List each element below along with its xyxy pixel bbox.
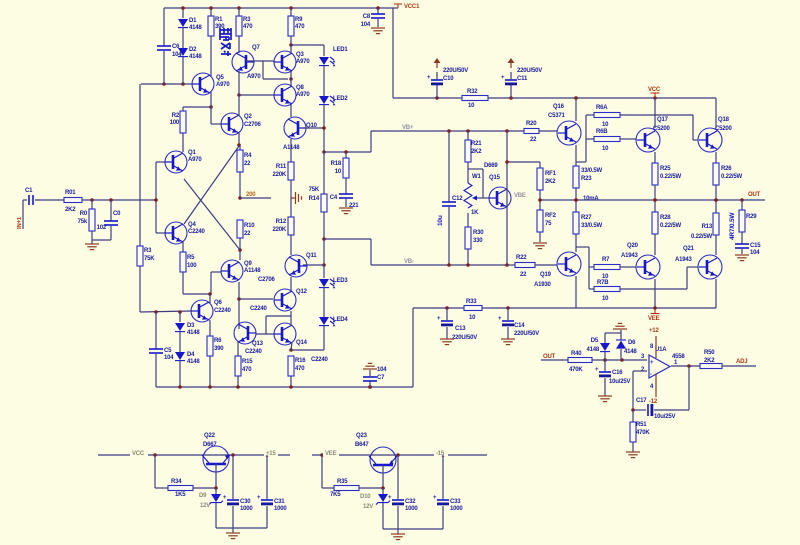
- svg-text:R6B: R6B: [596, 129, 608, 135]
- wire to VAS bottom: [324, 238, 371, 240]
- svg-text:R7B: R7B: [597, 280, 609, 286]
- svg-text:0.22/5W: 0.22/5W: [660, 223, 681, 229]
- svg-text:0.22/5W: 0.22/5W: [721, 174, 742, 180]
- svg-text:4148: 4148: [586, 347, 599, 353]
- svg-text:R30: R30: [473, 230, 484, 236]
- svg-text:10: 10: [602, 296, 609, 302]
- svg-text:10: 10: [602, 122, 609, 128]
- svg-text:R11: R11: [276, 164, 287, 170]
- svg-text:C2240: C2240: [188, 229, 206, 235]
- svg-text:OUT: OUT: [543, 354, 556, 360]
- svg-text:Q12: Q12: [296, 289, 308, 295]
- svg-text:12V: 12V: [200, 503, 210, 509]
- svg-text:Q23: Q23: [356, 433, 368, 439]
- svg-text:R40: R40: [571, 351, 582, 357]
- svg-text:C15: C15: [750, 243, 761, 249]
- svg-text:D5: D5: [591, 338, 599, 344]
- svg-text:D2: D2: [189, 47, 197, 53]
- svg-text:C12: C12: [452, 196, 463, 202]
- svg-text:VCC: VCC: [648, 87, 661, 93]
- svg-text:4: 4: [650, 384, 654, 390]
- svg-text:R13: R13: [702, 224, 713, 230]
- svg-text:D6: D6: [628, 340, 636, 346]
- resistor R50: [700, 350, 756, 369]
- resistor R7: [594, 257, 636, 280]
- svg-text:C2240: C2240: [311, 357, 329, 363]
- wire to VAS top: [324, 151, 371, 153]
- wire LED mid: [322, 239, 326, 267]
- svg-text:4R7/0.5W: 4R7/0.5W: [729, 212, 736, 240]
- transistor Q10: [283, 117, 318, 151]
- capacitor C5: [149, 312, 174, 387]
- wire rail98 left: [393, 96, 462, 100]
- ground sub2: [391, 529, 405, 540]
- svg-text:22: 22: [520, 272, 527, 278]
- svg-text:+: +: [427, 75, 431, 81]
- svg-text:R16: R16: [295, 358, 306, 364]
- svg-text:Q1: Q1: [188, 150, 196, 156]
- wire RF tap: [505, 160, 540, 168]
- svg-text:A970: A970: [247, 74, 261, 80]
- svg-text:Q4: Q4: [188, 222, 196, 228]
- wire R6AB tie: [576, 115, 594, 162]
- wire VAS bottom-left: [371, 239, 507, 265]
- resistor R3 75K: [137, 246, 155, 312]
- resistor R10: [237, 220, 255, 260]
- svg-text:7K5: 7K5: [330, 492, 341, 498]
- svg-text:RF2: RF2: [545, 213, 557, 219]
- capacitor C1: [23, 188, 64, 205]
- wire Q10 base: [302, 126, 326, 130]
- svg-text:4148: 4148: [187, 330, 200, 336]
- label VCC net: [130, 448, 148, 457]
- power VCC1 flag: [394, 4, 420, 10]
- resistor R23: [573, 166, 602, 212]
- svg-text:+: +: [437, 316, 441, 322]
- capacitor C6: [157, 8, 182, 84]
- ground C13: [440, 339, 454, 345]
- wire Q19 collector: [575, 276, 577, 308]
- wire Q15 CE line: [505, 129, 509, 267]
- resistor R01: [64, 190, 156, 213]
- svg-text:1000: 1000: [274, 506, 287, 512]
- svg-text:U1A: U1A: [655, 347, 667, 353]
- svg-text:R0: R0: [80, 211, 88, 217]
- transistor Q18: [698, 117, 733, 152]
- svg-text:OUT: OUT: [748, 192, 761, 198]
- svg-text:LED2: LED2: [333, 96, 348, 102]
- svg-text:470K: 470K: [636, 430, 650, 436]
- svg-text:VCC: VCC: [132, 451, 145, 457]
- svg-text:C7: C7: [377, 375, 385, 381]
- svg-text:470: 470: [242, 367, 252, 373]
- resistor RF1: [537, 168, 557, 210]
- svg-text:200: 200: [246, 192, 256, 198]
- wire Q12-Q14: [290, 311, 292, 326]
- svg-text:R3: R3: [243, 17, 251, 23]
- svg-text:102: 102: [97, 225, 107, 231]
- resistor R11: [272, 139, 294, 217]
- svg-text:-: -: [650, 372, 652, 378]
- svg-text:VBE: VBE: [514, 193, 526, 199]
- svg-text:R6: R6: [214, 338, 222, 344]
- junction fb node: [238, 196, 242, 200]
- svg-text:0.22/5W: 0.22/5W: [691, 234, 712, 240]
- transistor Q14: [274, 323, 329, 363]
- resistor R6A: [594, 105, 620, 128]
- pot W1: [464, 169, 489, 216]
- svg-text:4148: 4148: [187, 359, 200, 365]
- svg-text:R21: R21: [471, 141, 482, 147]
- svg-text:D667: D667: [203, 442, 217, 448]
- wire rail -15: [312, 453, 487, 457]
- transistor Q15: [484, 163, 511, 209]
- led LED3: [319, 265, 348, 317]
- wire Q7-Q3 bases: [246, 61, 293, 81]
- wire diagonal A: [184, 146, 239, 224]
- led LED2: [319, 96, 348, 152]
- svg-text:10: 10: [602, 146, 609, 152]
- ground input: [85, 240, 99, 250]
- wire Q16 emitter: [575, 145, 577, 166]
- svg-text:22: 22: [244, 231, 251, 237]
- svg-text:75K: 75K: [309, 187, 320, 193]
- capacitor C11: [501, 68, 542, 98]
- transistor Q4: [165, 222, 206, 244]
- wire rail98 right: [488, 96, 716, 128]
- svg-text:A1943: A1943: [675, 257, 693, 263]
- svg-text:R51: R51: [636, 422, 647, 428]
- svg-text:220U/50V: 220U/50V: [443, 68, 468, 74]
- wire R7B-Q21base: [620, 267, 698, 289]
- svg-text:C13: C13: [455, 326, 466, 332]
- svg-text:33/0.5W: 33/0.5W: [581, 223, 602, 229]
- wire Q11-Q12: [290, 277, 292, 292]
- svg-text:104: 104: [750, 250, 760, 256]
- svg-text:D3: D3: [187, 323, 195, 329]
- resistor R20: [507, 121, 557, 143]
- capacitor C0: [92, 200, 121, 240]
- svg-text:2: 2: [641, 367, 645, 373]
- wire R6A-Q18base: [620, 115, 698, 140]
- transistor Q5: [192, 73, 230, 95]
- wire inv input: [631, 371, 647, 412]
- resistor R34: [155, 455, 218, 498]
- wire R5-Q6: [183, 292, 212, 296]
- svg-text:Q16: Q16: [553, 104, 565, 110]
- wire Q5c-R2: [183, 105, 213, 109]
- svg-text:4148: 4148: [624, 349, 637, 355]
- power arrow C11: [508, 58, 515, 68]
- svg-text:A970: A970: [296, 92, 310, 98]
- label 10mA: [583, 196, 599, 202]
- wire LED return: [289, 348, 324, 352]
- ground C7: [363, 363, 377, 369]
- svg-text:C5200: C5200: [653, 126, 671, 132]
- svg-text:LED1: LED1: [333, 47, 348, 53]
- svg-text:Q3: Q3: [296, 52, 304, 58]
- svg-text:R35: R35: [337, 479, 348, 485]
- resistor R6: [207, 320, 224, 387]
- transistor Q13: [234, 322, 264, 355]
- resistor R51: [630, 410, 650, 452]
- svg-text:C5: C5: [164, 348, 172, 354]
- resistor R1: [208, 8, 225, 76]
- svg-text:+: +: [498, 316, 502, 322]
- svg-text:22: 22: [244, 161, 251, 167]
- wire current mirror chain: [290, 45, 292, 117]
- wire Q5 collector: [210, 92, 212, 107]
- svg-text:R50: R50: [704, 350, 715, 356]
- svg-text:R14: R14: [309, 196, 320, 202]
- svg-text:Q21: Q21: [683, 246, 695, 252]
- ground mid sideways: [291, 192, 302, 204]
- svg-text:470: 470: [243, 24, 253, 30]
- capacitor C14: [498, 308, 539, 339]
- ground sub1: [226, 528, 240, 539]
- label -15 net: [434, 448, 448, 457]
- svg-text:A1148: A1148: [283, 145, 300, 151]
- wire neg rail left: [413, 306, 464, 310]
- capacitor C4: [330, 194, 360, 209]
- svg-text:R1: R1: [215, 17, 223, 23]
- transistor Q11: [258, 253, 317, 283]
- transistor Q8: [274, 84, 310, 106]
- diode D1: [178, 8, 202, 48]
- svg-text:Q9: Q9: [244, 261, 252, 267]
- svg-text:R5: R5: [187, 255, 195, 261]
- wire R7 tie: [576, 247, 594, 289]
- svg-text:100: 100: [187, 263, 197, 269]
- svg-text:LED4: LED4: [333, 317, 348, 323]
- svg-text:D9: D9: [199, 493, 207, 499]
- svg-text:VEE: VEE: [648, 316, 660, 322]
- svg-text:10mA: 10mA: [583, 196, 599, 202]
- svg-text:2K2: 2K2: [704, 358, 715, 364]
- svg-text:C8: C8: [363, 14, 371, 20]
- svg-text:Q14: Q14: [296, 340, 308, 346]
- svg-text:2K2: 2K2: [65, 207, 76, 213]
- svg-text:+: +: [501, 75, 505, 81]
- resistor R32: [462, 89, 488, 109]
- resistor R22: [507, 255, 557, 278]
- node IN input stub: [17, 200, 23, 229]
- capacitor C15: [735, 243, 761, 256]
- svg-text:470: 470: [295, 24, 305, 30]
- label servo net: [736, 359, 747, 365]
- svg-text:Q20: Q20: [627, 243, 639, 249]
- svg-text:8: 8: [650, 344, 654, 350]
- resistor R18: [331, 150, 349, 194]
- svg-text:75K: 75K: [144, 256, 155, 262]
- capacitor C10: [427, 68, 468, 98]
- svg-text:R7: R7: [602, 257, 610, 263]
- transistor Q7: [232, 45, 261, 80]
- wire Q7 collector: [238, 71, 240, 95]
- svg-text:4148: 4148: [189, 54, 202, 60]
- svg-text:W1: W1: [472, 174, 481, 180]
- resistor R2: [170, 107, 186, 152]
- wire Q5 base: [141, 82, 192, 86]
- svg-text:Q6: Q6: [214, 300, 222, 306]
- svg-text:LED3: LED3: [333, 278, 348, 284]
- svg-text:1000: 1000: [405, 506, 418, 512]
- svg-text:R12: R12: [276, 219, 287, 225]
- wire Q12 base: [239, 298, 273, 300]
- ground C14: [501, 339, 515, 345]
- op-amp U1A: [641, 347, 685, 378]
- svg-text:B647: B647: [355, 442, 369, 448]
- resistor R12: [272, 217, 294, 255]
- wire Q2 collector: [238, 95, 240, 116]
- capacitor C31: [257, 455, 287, 528]
- svg-text:75: 75: [545, 221, 552, 227]
- svg-text:Q13: Q13: [252, 341, 264, 347]
- transistor Q21: [675, 246, 722, 279]
- ground C16: [598, 396, 612, 402]
- ground C15: [735, 255, 749, 261]
- resistor RF2: [537, 210, 557, 242]
- wire sub2 bottom: [383, 528, 443, 530]
- power VEE tick: [648, 306, 660, 322]
- resistor R29: [739, 200, 757, 244]
- capacitor C12: [437, 129, 463, 267]
- wire Q21 emitter: [715, 279, 717, 308]
- junction input-C0: [109, 198, 113, 202]
- resistor R26: [713, 152, 742, 213]
- capacitor C16: [595, 360, 630, 396]
- svg-text:Q19: Q19: [540, 272, 552, 278]
- svg-text:104: 104: [361, 22, 371, 28]
- svg-text:Q22: Q22: [204, 433, 216, 439]
- svg-text:C0: C0: [113, 211, 121, 217]
- wire corner neg: [412, 308, 414, 387]
- svg-text:C32: C32: [405, 499, 416, 505]
- wire Q9 collector: [237, 282, 241, 329]
- svg-text:12V: 12V: [363, 504, 373, 510]
- svg-text:0.22/5W: 0.22/5W: [660, 174, 681, 180]
- transistor Q3: [274, 51, 310, 73]
- power arrow C10: [434, 58, 441, 68]
- transistor Q23: [355, 433, 397, 488]
- ground RF2: [533, 243, 547, 249]
- svg-text:R25: R25: [660, 166, 671, 172]
- wire Q8 base: [237, 93, 274, 97]
- svg-text:R6A: R6A: [596, 105, 608, 111]
- svg-text:470K: 470K: [569, 367, 583, 373]
- svg-text:R01: R01: [65, 190, 76, 196]
- svg-text:4148: 4148: [189, 25, 202, 31]
- wire Q2 emitter: [237, 132, 241, 147]
- svg-text:A1930: A1930: [534, 282, 552, 288]
- wire Q16 collector: [575, 98, 577, 121]
- svg-text:+: +: [388, 495, 392, 501]
- transistor Q20: [621, 243, 660, 279]
- wire VCC feed: [392, 8, 394, 98]
- label VEE net: [323, 448, 339, 457]
- resistor R14: [309, 152, 327, 241]
- svg-text:R2: R2: [172, 113, 180, 119]
- led LED4: [319, 317, 348, 350]
- svg-text:A1943: A1943: [621, 253, 639, 259]
- note matched pair: [220, 28, 231, 56]
- capacitor C7: [363, 367, 387, 389]
- svg-text:C2240: C2240: [214, 308, 232, 314]
- wire diode tie: [605, 330, 621, 333]
- transistor Q9: [221, 260, 261, 282]
- ground C4: [339, 208, 353, 214]
- capacitor C13: [437, 308, 477, 341]
- svg-text:104: 104: [377, 367, 387, 373]
- svg-text:220K: 220K: [272, 227, 286, 233]
- wire OUT rail: [540, 198, 765, 202]
- transistor Q1: [165, 150, 202, 173]
- transistor Q6: [191, 300, 232, 322]
- wire servo out: [671, 364, 700, 368]
- svg-text:C1: C1: [25, 188, 33, 194]
- resistor R3b 470: [236, 8, 253, 53]
- svg-text:Q2: Q2: [244, 114, 252, 120]
- svg-text:10u: 10u: [437, 215, 444, 226]
- svg-text:390: 390: [214, 346, 224, 352]
- svg-text:C2706: C2706: [258, 277, 276, 283]
- svg-text:ADJ: ADJ: [736, 359, 747, 365]
- svg-text:D669: D669: [484, 163, 498, 169]
- svg-text:75k: 75k: [78, 219, 88, 225]
- wire sub1 bottom: [216, 527, 267, 529]
- resistor R5: [180, 241, 197, 294]
- led LED1: [319, 45, 348, 96]
- resistor R7B: [594, 280, 620, 302]
- power -12: [649, 374, 658, 405]
- svg-text:D1: D1: [189, 18, 197, 24]
- capacitor C33: [433, 455, 463, 529]
- svg-text:10u/25V: 10u/25V: [654, 414, 675, 420]
- svg-text:D4: D4: [187, 352, 195, 358]
- wire Q20 emitter: [654, 279, 656, 308]
- svg-text:1K5: 1K5: [175, 492, 186, 498]
- svg-text:C2706: C2706: [244, 122, 262, 128]
- resistor R4: [237, 145, 252, 198]
- svg-text:330: 330: [473, 238, 483, 244]
- svg-text:R9: R9: [295, 17, 303, 23]
- svg-text:VCC1: VCC1: [404, 4, 420, 10]
- svg-text:C30: C30: [240, 499, 251, 505]
- svg-text:R29: R29: [746, 214, 757, 220]
- resistor R28: [652, 212, 681, 255]
- resistor R16: [288, 356, 306, 387]
- resistor R9: [288, 8, 305, 47]
- svg-text:C14: C14: [514, 323, 525, 329]
- svg-text:C31: C31: [274, 499, 285, 505]
- svg-text:2K2: 2K2: [545, 179, 556, 185]
- svg-text:104: 104: [164, 355, 174, 361]
- transistor Q12: [250, 289, 308, 312]
- resistor R25: [652, 98, 681, 212]
- svg-text:+: +: [433, 495, 437, 501]
- svg-text:A970: A970: [216, 82, 230, 88]
- wire VAS top-left: [371, 131, 507, 152]
- capacitor C17: [633, 398, 675, 420]
- transistor Q17: [636, 117, 671, 152]
- wire Q11 base: [303, 264, 324, 266]
- svg-text:220K: 220K: [272, 172, 286, 178]
- svg-text:33/0.5W: 33/0.5W: [581, 168, 602, 174]
- svg-text:IN+1: IN+1: [17, 216, 23, 229]
- wire feedback: [654, 366, 689, 410]
- wire R9-LED: [291, 44, 324, 46]
- transistor Q22: [202, 433, 230, 488]
